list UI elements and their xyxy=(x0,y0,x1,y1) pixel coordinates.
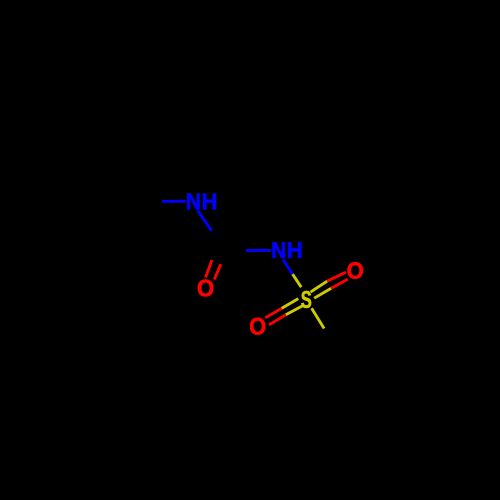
node O2: sulfonyl oxygen label O (upper right) xyxy=(348,262,363,278)
wire: double bond C=O1 line 1, O half (red) xyxy=(206,260,212,277)
wire: double bond C=O1 line 2, O half (red) xyxy=(214,264,221,279)
wire: bond N2-S, S half (yellow) xyxy=(293,274,302,287)
wire: double bond S=O2 line 1, O half (red) xyxy=(327,272,346,281)
wire: double bond S=O2 line 1, S half (yellow) xyxy=(311,281,328,292)
wire: double bond S=O3 line 1, S half (yellow) xyxy=(282,299,299,309)
node O1: carbonyl oxygen label O xyxy=(198,280,213,297)
wire: double bond S=O3 line 2, O half (red) xyxy=(269,315,286,325)
wire: double bond S=O2 line 2, S half (yellow) xyxy=(314,288,331,298)
wire: bond C(carbonyl)-N2, N half (blue) xyxy=(246,249,271,252)
node N2: sulfonamide nitrogen label H xyxy=(288,242,301,258)
wire: double bond S=O3 line 1, O half (red) xyxy=(265,308,281,317)
node N1: amide nitrogen label H xyxy=(203,193,216,209)
node N2: sulfonamide nitrogen label N xyxy=(273,242,285,258)
node S1: sulfonyl sulfur label S xyxy=(301,291,311,308)
wire: double bond S=O3 line 2, S half (yellow) xyxy=(286,305,305,315)
wire: bond N2-S, N half (blue) xyxy=(283,260,293,275)
node O3: sulfonyl oxygen label O (lower left) xyxy=(250,318,265,335)
wire: bond N1-C(carbonyl), N half (blue) xyxy=(198,210,212,231)
node N1: amide nitrogen label N xyxy=(187,193,199,209)
wire: double bond S=O2 line 2, O half (red) xyxy=(331,279,348,288)
wire: bond S-CH3 methyl, S half (yellow) xyxy=(312,308,325,328)
wire: bond C(alkyl)-N1, N half (blue) xyxy=(162,200,186,203)
